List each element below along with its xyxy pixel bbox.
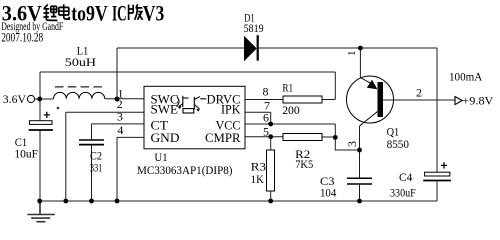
wire vertical battery branch x40 (C1 to ground rail) <box>39 130 41 201</box>
wire vcc feed rail y72 from battery branch to R1 right <box>40 71 335 73</box>
svg-text:C4: C4 <box>399 170 412 184</box>
svg-text:5: 5 <box>263 124 269 138</box>
wire top rail left segment (L1 node to D1 anode) <box>117 47 245 49</box>
junction node pin7/pin6 <box>268 122 273 127</box>
transistor Q1 circle <box>347 76 394 123</box>
junction node R2 right / VCC <box>333 135 338 140</box>
IC internal darlington sketch <box>177 96 207 113</box>
svg-text:IC: IC <box>112 1 127 26</box>
wire R1 right end up to vcc rail <box>322 72 335 100</box>
svg-text:3.6V: 3.6V <box>3 92 27 106</box>
wire IC pin 8 to R1 <box>245 99 283 101</box>
inductor phase dot <box>57 107 60 110</box>
title CJK 电 <box>59 4 69 19</box>
capacitor C2 <box>79 140 104 145</box>
inductor L1 <box>54 92 105 98</box>
svg-text:331: 331 <box>90 161 102 175</box>
junction node pin5/R2/R3 <box>268 134 273 139</box>
junction node collector / C3 <box>357 148 362 153</box>
svg-text:IPK: IPK <box>221 103 241 117</box>
wire vertical battery branch x40 (top rail to C1) <box>39 72 41 121</box>
diode D1 cathode bar <box>257 35 259 61</box>
IC internal arrow 2 <box>196 109 200 112</box>
svg-text:SWE: SWE <box>151 103 179 117</box>
svg-text:8550: 8550 <box>387 137 409 151</box>
svg-text:GND: GND <box>151 131 180 145</box>
title CJK 版 <box>129 4 143 20</box>
IC U1 box <box>144 86 245 149</box>
transistor Q1 emitter arrowhead <box>367 80 378 89</box>
resistor R3 <box>267 150 275 191</box>
wire L1 to IC pin 1 <box>105 98 144 100</box>
wire collector node to C3 top <box>359 126 361 178</box>
svg-text:50uH: 50uH <box>65 55 97 69</box>
wire IC pin 6 VCC to junction <box>245 124 335 137</box>
svg-text:MC33063AP1(DIP8): MC33063AP1(DIP8) <box>137 163 233 177</box>
input terminal circle 3.6V <box>27 95 34 102</box>
wire IC pin 4 to ground drop <box>117 137 144 201</box>
junction rail pin2 <box>63 199 68 204</box>
junction rail C3 <box>357 199 362 204</box>
capacitor C4 (polarized) <box>423 172 451 180</box>
svg-text:10uF: 10uF <box>14 147 38 161</box>
wire Q1 emitter drop from top rail <box>359 48 361 78</box>
svg-text:V3: V3 <box>143 1 165 26</box>
junction node input <box>37 97 42 102</box>
svg-text:4: 4 <box>117 123 123 137</box>
title CJK 锂 <box>43 5 57 21</box>
svg-text:to9V: to9V <box>71 1 108 26</box>
svg-text:200: 200 <box>282 103 300 117</box>
wire IC pin 2 to ground drop <box>66 112 144 201</box>
wire R2 right to junction <box>322 136 335 138</box>
IC internal arrow 1 <box>178 106 181 109</box>
resistor R2 <box>283 134 322 141</box>
inductor L1 core dashed line <box>55 86 103 88</box>
wire IC pin 7 drop to pin 6 line <box>245 112 271 124</box>
svg-text:330uF: 330uF <box>390 186 416 200</box>
svg-text:104: 104 <box>320 186 336 200</box>
wire C3 bottom to ground rail <box>359 184 361 201</box>
wire vertical from top rail down to L1 output node <box>116 48 118 99</box>
transistor Q1 emitter lead <box>360 78 375 86</box>
capacitor C1 (polarized) <box>29 121 53 130</box>
junction rail R3 <box>268 199 273 204</box>
wire IC pin 5 to R2 left <box>245 136 283 138</box>
svg-text:1: 1 <box>346 51 358 57</box>
svg-text:5819: 5819 <box>244 21 264 35</box>
diode D1 <box>245 37 257 60</box>
svg-text:U1: U1 <box>154 150 167 164</box>
junction rail C1 <box>37 199 42 204</box>
wire right vertical x437 C4 to ground rail <box>436 182 438 202</box>
resistor R1 <box>283 96 322 103</box>
wire R3 bottom to ground rail <box>270 191 272 201</box>
C4 plus sign <box>441 162 447 168</box>
junction node L1/pin1/top <box>115 97 120 102</box>
wire ground rail <box>40 200 437 202</box>
transistor Q1 collector lead <box>360 112 378 127</box>
svg-text:3: 3 <box>117 110 123 124</box>
capacitor C3 <box>347 178 372 184</box>
svg-text:7K5: 7K5 <box>295 157 313 171</box>
ground symbol <box>27 201 55 222</box>
junction node top rail / Q1 emitter <box>358 46 363 51</box>
transistor Q1 base bar <box>378 82 384 117</box>
svg-text:1K: 1K <box>251 172 264 186</box>
output arrow <box>455 97 462 105</box>
svg-text:3: 3 <box>345 141 359 147</box>
svg-text:6: 6 <box>263 111 269 125</box>
wire IC pin 3 to C2 <box>92 124 145 140</box>
junction rail C2 <box>89 199 94 204</box>
wire junction down and right to collector node <box>335 137 359 150</box>
svg-text:8: 8 <box>263 85 269 99</box>
wire top rail right segment (D1 cathode to right vertical) <box>259 47 437 49</box>
svg-text:+9.8V: +9.8V <box>462 94 493 108</box>
svg-text:2007.10.28: 2007.10.28 <box>1 31 43 45</box>
svg-text:100mA: 100mA <box>449 69 483 83</box>
svg-text:R1: R1 <box>282 80 293 94</box>
junction rail pin4 <box>115 199 120 204</box>
wire C2 bottom to ground rail <box>91 145 93 201</box>
wire 3.6V terminal to inductor <box>35 98 54 100</box>
wire output from Q1 base to arrow <box>383 99 455 101</box>
wire R3 top from pin5 node <box>270 137 272 150</box>
wire right vertical x437 top rail to C4 <box>436 48 438 172</box>
C1 plus sign <box>44 112 50 118</box>
svg-text:2: 2 <box>416 85 422 99</box>
svg-text:CMPR: CMPR <box>205 131 241 145</box>
